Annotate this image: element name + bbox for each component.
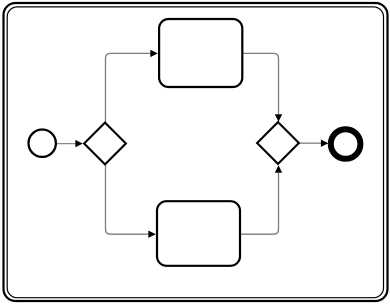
gateway G2 diamond bbox=[257, 122, 299, 164]
wire gateway G1 down to task T2 bbox=[106, 164, 156, 238]
wire gateway G1 up to task T1 bbox=[106, 50, 158, 124]
task T1 rounded rectangle bbox=[159, 19, 242, 87]
gateway G1 diamond bbox=[84, 123, 126, 165]
wire task T2 to gateway G2 bbox=[241, 165, 282, 234]
wire start event to gateway G1 bbox=[56, 140, 83, 147]
start event circle bbox=[29, 130, 56, 157]
end event thick circle bbox=[331, 129, 361, 159]
wire gateway G2 to end event bbox=[299, 140, 328, 147]
task T2 rounded rectangle bbox=[157, 201, 240, 266]
wire task T1 to gateway G2 bbox=[243, 53, 282, 121]
